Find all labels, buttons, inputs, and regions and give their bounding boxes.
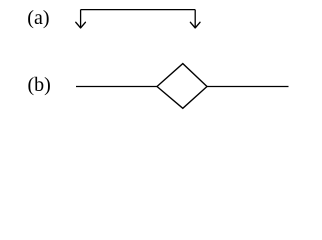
svg-text:(a): (a) bbox=[27, 7, 49, 29]
diamond element (b) bbox=[157, 64, 207, 109]
wire: left horizontal segment (b) bbox=[76, 86, 157, 88]
arrowhead right (down) bbox=[190, 22, 200, 28]
wire: right vertical shaft bbox=[194, 10, 196, 28]
arrowhead left (down) bbox=[76, 22, 86, 28]
svg-text:(b): (b) bbox=[28, 74, 51, 96]
wire: right horizontal segment (b) bbox=[207, 86, 289, 88]
wire: top horizontal span bbox=[81, 9, 196, 11]
wire: left vertical shaft bbox=[80, 10, 82, 28]
